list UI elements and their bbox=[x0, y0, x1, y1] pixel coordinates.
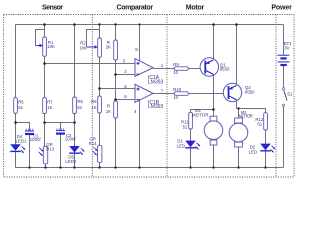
wire R 2K bottom to R 1K bbox=[115, 60, 117, 101]
wire D5 cathode to bottom rail bbox=[74, 153, 76, 167]
wire R2 bottom to R8 bbox=[99, 57, 101, 96]
LED D4 bbox=[10, 134, 27, 153]
svg-text:LM393: LM393 bbox=[148, 104, 164, 110]
wire top rail bbox=[16, 24, 284, 26]
node M2 top lead bbox=[237, 107, 239, 109]
wire node C cross to D5 column bbox=[45, 122, 75, 124]
switch S1 bbox=[282, 88, 293, 107]
node bottom rail x242.5 bbox=[237, 166, 239, 168]
wire R1 wiper loop bbox=[36, 30, 45, 46]
wire pin 6 bbox=[116, 99, 136, 101]
op-amp IC1A bbox=[135, 59, 164, 86]
resistor R9 bbox=[173, 62, 188, 75]
svg-text:S1: S1 bbox=[287, 92, 293, 97]
section divider Comparator/Motor bbox=[166, 15, 168, 178]
svg-text:10K: 10K bbox=[79, 46, 87, 51]
LED D1 bbox=[177, 139, 201, 150]
wire Q2 collector to M2 node bbox=[236, 100, 238, 109]
svg-text:2K: 2K bbox=[106, 44, 111, 49]
svg-text:MOTOR: MOTOR bbox=[192, 112, 208, 117]
svg-text:8550: 8550 bbox=[245, 90, 255, 95]
svg-text:10: 10 bbox=[173, 95, 178, 100]
potentiometer R1 bbox=[36, 37, 55, 56]
transistor Q2 bbox=[223, 83, 255, 101]
node bottom rail x139.3 bbox=[138, 166, 140, 168]
wire top rail to R6 bbox=[74, 25, 76, 98]
svg-text:10: 10 bbox=[173, 70, 178, 75]
wire pin 4 GND bbox=[139, 100, 141, 167]
svg-text:Comparator: Comparator bbox=[117, 5, 154, 12]
battery BT1 bbox=[278, 41, 293, 65]
node bottom rail x265.6 bbox=[264, 166, 266, 168]
resistor R 1K bbox=[106, 101, 118, 118]
wire GR R13 to bottom rail bbox=[45, 164, 47, 168]
node M1 collector bbox=[212, 108, 215, 111]
wire R7 bottom to GR R13 bbox=[44, 114, 46, 147]
junction node dots bbox=[14, 23, 266, 169]
node pin2 reference bbox=[114, 73, 117, 76]
node bottom rail x45.5 bbox=[44, 166, 46, 168]
node Q1 emitter rail bbox=[212, 23, 215, 26]
wire battery to switch bbox=[283, 66, 285, 88]
section divider Sensor/Comparator bbox=[91, 15, 93, 178]
svg-text:MOTOR: MOTOR bbox=[239, 113, 253, 118]
LED D2 bbox=[249, 144, 276, 155]
wire Q1 collector to M1 node bbox=[213, 75, 215, 116]
node C R7/GR13/C2 bbox=[43, 121, 46, 124]
resistor R8 bbox=[91, 96, 101, 113]
svg-text:1K: 1K bbox=[47, 105, 52, 110]
wire C1 to bottom rail bbox=[29, 135, 31, 168]
photoresistor GR R13 bbox=[39, 142, 55, 164]
wire bottom rail bbox=[16, 167, 284, 169]
capacitor C2 bbox=[56, 128, 76, 141]
resistor R12 bbox=[255, 113, 267, 130]
wire R2 wiper loop bbox=[87, 30, 100, 48]
node pin6 reference bbox=[114, 98, 117, 101]
wire R1 bottom to node B bbox=[44, 56, 46, 97]
wire M2 node to R12 bbox=[237, 109, 266, 113]
svg-text:R9: R9 bbox=[173, 62, 179, 67]
node R 2K top bbox=[114, 23, 116, 25]
wire IC1A output to R9 bbox=[153, 68, 174, 70]
wire M1 bottom to bottom rail bbox=[213, 145, 215, 168]
resistor R7 bbox=[43, 98, 54, 114]
motor M2 bbox=[229, 110, 253, 147]
wire R9 to Q1 base bbox=[188, 68, 205, 70]
node R6/D5/C2 wire bbox=[73, 121, 76, 124]
svg-text:1K: 1K bbox=[91, 105, 96, 110]
node bottom rail x29.4 bbox=[28, 166, 30, 168]
wire top rail to R 2K bbox=[115, 25, 117, 41]
potentiometer R2 bbox=[79, 38, 101, 57]
svg-text:R10: R10 bbox=[173, 87, 181, 92]
wire R8 bottom to GR R14 bbox=[99, 113, 101, 145]
wire D4 cathode to bottom rail bbox=[15, 152, 17, 168]
node A R5/C1/D4 bbox=[14, 121, 17, 124]
node R2 top bbox=[98, 23, 100, 25]
wire left rail bbox=[15, 25, 17, 98]
wire R 1K to bottom rail bbox=[115, 118, 117, 168]
wire pin 2 bbox=[116, 74, 136, 76]
wire pin 5 bbox=[100, 88, 136, 90]
resistor R5 bbox=[14, 98, 25, 114]
wire R6 bottom to D5 bbox=[74, 114, 76, 147]
svg-text:Motor: Motor bbox=[186, 5, 205, 12]
svg-text:LED1: LED1 bbox=[16, 138, 27, 143]
svg-text:51: 51 bbox=[183, 124, 188, 129]
svg-text:3V: 3V bbox=[284, 46, 289, 51]
wire IC1B output to R10 bbox=[153, 93, 174, 95]
node bottom rail x74.8 bbox=[73, 166, 75, 168]
transistor Q1 bbox=[200, 58, 230, 76]
wire M2 bottom to bottom rail bbox=[238, 147, 240, 168]
svg-text:51: 51 bbox=[77, 105, 82, 110]
resistor R10 bbox=[173, 87, 188, 100]
wire C2 top lead bbox=[60, 123, 62, 131]
section divider Motor/Power bbox=[275, 15, 277, 178]
resistor R11 bbox=[181, 112, 192, 129]
wire M1 node to R11 bbox=[191, 110, 214, 113]
node bottom rail x190 bbox=[189, 166, 191, 168]
node bottom rail x213 bbox=[212, 166, 214, 168]
resistor R 2K bbox=[106, 40, 118, 60]
wire D2 cathode to bottom rail bbox=[265, 151, 267, 168]
wire R12 bottom to D2 bbox=[265, 130, 267, 144]
svg-text:R7: R7 bbox=[47, 100, 53, 105]
svg-text:LM393: LM393 bbox=[148, 79, 164, 85]
wire top rail to R1 bbox=[44, 25, 46, 38]
wire Q2 emitter to top rail bbox=[236, 25, 238, 86]
LED D5 bbox=[65, 146, 84, 164]
resistor R6 bbox=[73, 97, 84, 114]
svg-text:Sensor: Sensor bbox=[42, 5, 63, 12]
svg-text:LED2: LED2 bbox=[65, 159, 76, 164]
motor M1 bbox=[192, 108, 223, 145]
svg-text:51: 51 bbox=[18, 105, 23, 110]
node bottom rail x60.1 bbox=[59, 166, 61, 168]
svg-text:LED: LED bbox=[249, 149, 257, 154]
svg-text:R6: R6 bbox=[77, 99, 83, 104]
svg-text:51: 51 bbox=[257, 122, 262, 127]
node R1 top bbox=[43, 23, 46, 26]
wire GR R14 to bottom rail bbox=[99, 162, 101, 167]
svg-text:100nf: 100nf bbox=[30, 137, 42, 142]
wire R10 to Q2 base bbox=[188, 93, 228, 95]
wire top rail to R2 bbox=[99, 25, 101, 39]
svg-text:R8: R8 bbox=[91, 99, 97, 104]
wire R5 bottom to node A bbox=[15, 113, 17, 144]
svg-text:LED: LED bbox=[177, 143, 185, 148]
svg-text:1K: 1K bbox=[106, 109, 111, 114]
svg-text:R: R bbox=[107, 104, 110, 109]
node R6 top bbox=[73, 23, 76, 26]
wire C2 to bottom rail bbox=[60, 135, 62, 168]
node bottom rail x115.5 bbox=[114, 166, 116, 168]
wire Q1 emitter to top rail bbox=[213, 25, 215, 61]
wire M2 top lead bbox=[238, 109, 240, 119]
svg-text:100nf: 100nf bbox=[65, 137, 77, 142]
wire node A to C1 bbox=[16, 123, 30, 131]
svg-text:Power: Power bbox=[271, 5, 292, 12]
wire top rail to battery bbox=[283, 25, 285, 55]
capacitor C1 bbox=[25, 129, 41, 143]
svg-text:8550: 8550 bbox=[220, 67, 230, 72]
wire node B to pin 3 bbox=[45, 63, 136, 65]
node B R1/R7/pin3 bbox=[43, 62, 46, 65]
outer dashed border bbox=[4, 15, 295, 178]
wire R11 bottom to D1 bbox=[190, 129, 192, 141]
node pin8 Vcc rail bbox=[138, 23, 140, 25]
op-amp IC1B bbox=[135, 84, 164, 110]
svg-text:R13: R13 bbox=[46, 146, 54, 151]
photoresistor GR R14 bbox=[89, 136, 102, 162]
node bottom rail x99.7 bbox=[98, 166, 100, 168]
node Q2 emitter rail bbox=[235, 23, 238, 26]
node pin5 R2/R8 bbox=[98, 87, 101, 90]
wire pin 8 Vcc bbox=[139, 25, 141, 61]
wire switch to bottom rail bbox=[283, 107, 285, 168]
svg-text:R14: R14 bbox=[89, 141, 97, 146]
wire D1 cathode to bottom rail bbox=[190, 148, 192, 168]
svg-text:10K: 10K bbox=[47, 44, 55, 49]
